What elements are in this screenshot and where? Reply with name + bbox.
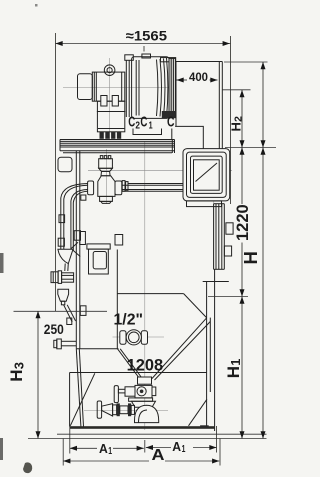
svg-text:H: H bbox=[240, 251, 261, 264]
svg-text:C: C bbox=[167, 114, 175, 131]
svg-text:A: A bbox=[99, 441, 108, 456]
svg-text:2: 2 bbox=[232, 116, 244, 122]
svg-text:250: 250 bbox=[44, 322, 64, 337]
svg-text:H: H bbox=[229, 122, 244, 131]
svg-text:400: 400 bbox=[189, 70, 208, 84]
svg-text:1/2": 1/2" bbox=[114, 311, 144, 328]
svg-text:1: 1 bbox=[108, 446, 112, 457]
svg-text:1: 1 bbox=[182, 444, 186, 455]
svg-text:1208: 1208 bbox=[127, 356, 164, 375]
svg-text:≈1565: ≈1565 bbox=[126, 28, 168, 44]
svg-text:C: C bbox=[128, 114, 135, 131]
svg-text:3: 3 bbox=[11, 362, 26, 369]
svg-text:C: C bbox=[140, 114, 147, 131]
svg-text:H: H bbox=[7, 370, 26, 382]
svg-text:H: H bbox=[224, 366, 243, 378]
svg-text:1: 1 bbox=[229, 359, 243, 366]
svg-text:A: A bbox=[172, 439, 181, 454]
svg-text:1: 1 bbox=[149, 119, 153, 131]
svg-text:1220: 1220 bbox=[234, 204, 252, 241]
svg-text:A: A bbox=[152, 447, 165, 464]
